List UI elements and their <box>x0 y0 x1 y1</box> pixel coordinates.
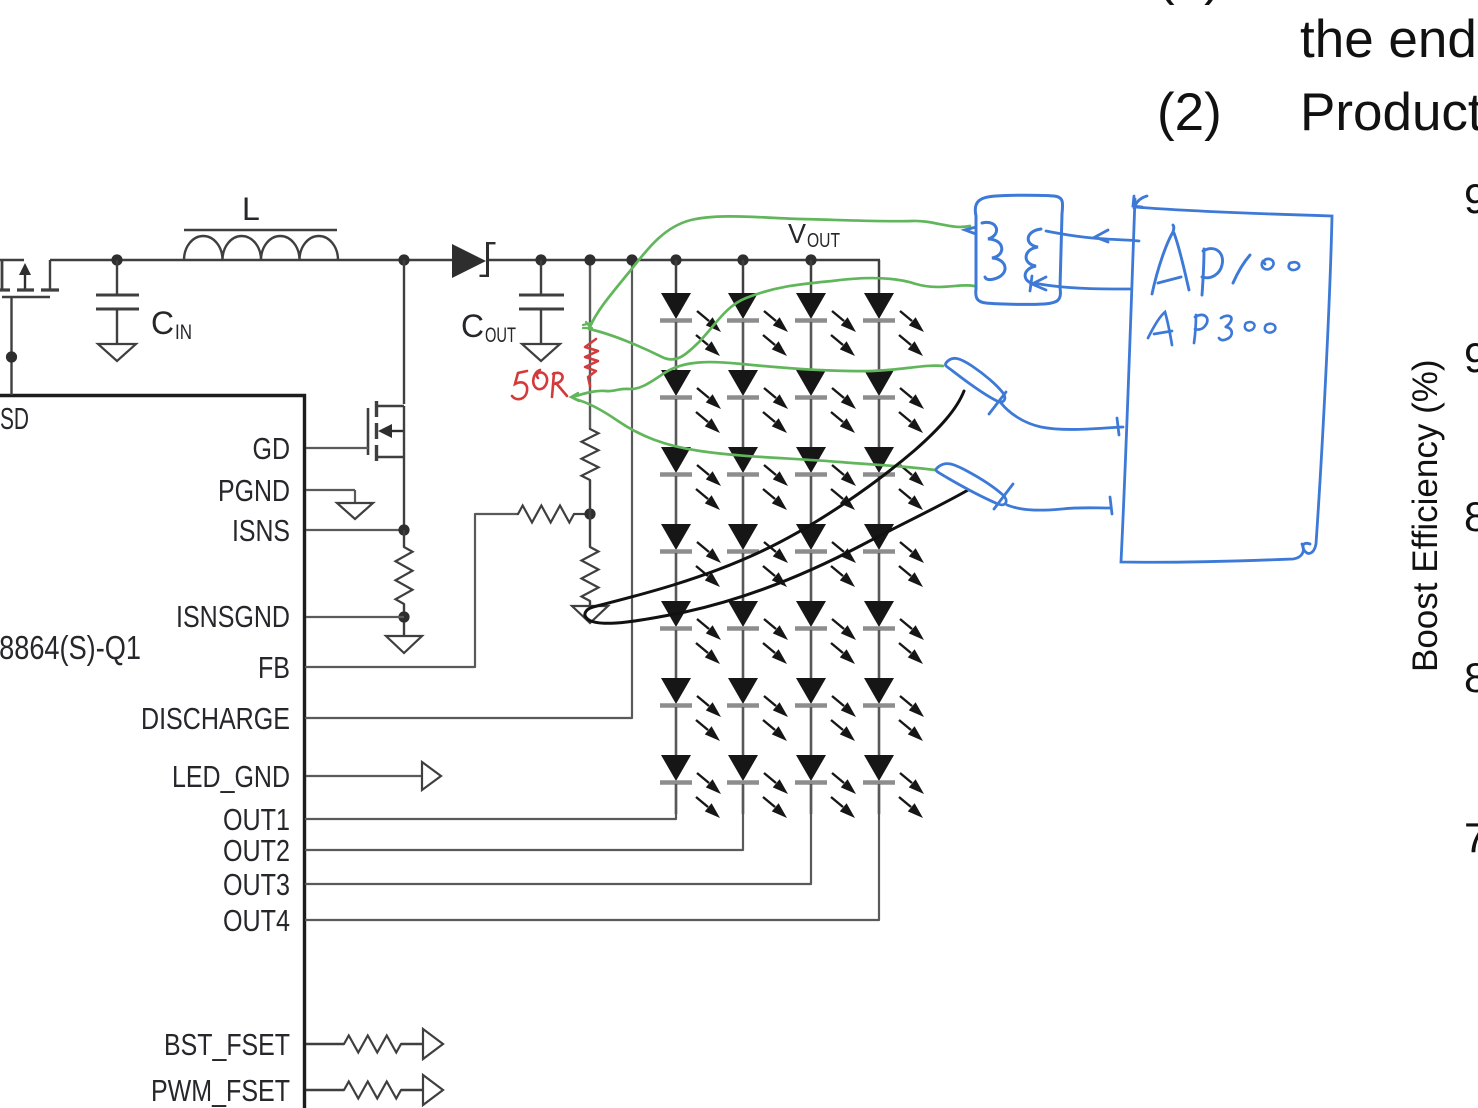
svg-text:(1): (1) <box>1157 0 1222 6</box>
ground under R_ISNS <box>386 636 422 653</box>
junction LED column 1 <box>670 254 681 265</box>
wire black B1 (divider gnd to clip 1) <box>593 391 964 607</box>
LED D47 <box>863 755 924 818</box>
junction COUT <box>535 254 546 265</box>
wire PGND stub <box>354 490 356 503</box>
product box (blue) <box>1121 196 1332 562</box>
wire ISNSGND pin <box>306 616 404 618</box>
svg-text:BST_FSET: BST_FSET <box>164 1028 290 1062</box>
open arrow FSET <box>423 1029 443 1059</box>
junction on rail <box>626 254 637 265</box>
LED D25 <box>727 601 788 678</box>
transistor Q2 (boost NFET) <box>368 260 404 461</box>
resistor <box>344 1036 401 1053</box>
LED D22 <box>727 370 788 447</box>
wire FSET pin <box>306 1043 344 1045</box>
transformer sketch (blue) <box>965 195 1063 304</box>
inductor L <box>184 191 338 260</box>
svg-text:OUT3: OUT3 <box>223 868 290 902</box>
svg-text:FB: FB <box>258 651 290 685</box>
LED D15 <box>660 601 721 678</box>
svg-text:C: C <box>151 305 174 341</box>
LED D13 <box>660 447 721 524</box>
capacitor COUT <box>519 260 564 344</box>
LED D23 <box>727 447 788 524</box>
svg-text:Boost Efficiency (%): Boost Efficiency (%) <box>1406 359 1445 672</box>
wire blue transformer to box (top) <box>1030 230 1139 291</box>
LED D41 <box>863 293 924 370</box>
junction Q2 drain <box>398 254 409 265</box>
op-amp U1 LP8864-Q1 IC block outline <box>0 396 305 1108</box>
ground under CIN <box>98 344 136 361</box>
svg-text:V: V <box>788 218 806 249</box>
wire VOUT to divider <box>589 260 591 429</box>
capacitor CIN <box>96 260 139 344</box>
svg-text:P8864(S)-Q1: P8864(S)-Q1 <box>0 629 141 666</box>
svg-text:SD: SD <box>0 402 29 436</box>
wire <box>403 530 405 547</box>
svg-text:the end: the end <box>1300 10 1477 69</box>
LED D27 <box>727 755 788 818</box>
LED D16 <box>660 678 721 755</box>
wire FSET pin <box>306 1089 344 1091</box>
ground under divider <box>572 606 608 623</box>
wire PGND pin <box>306 489 355 491</box>
wire <box>401 1043 423 1045</box>
wire LED_GND pin <box>306 775 422 777</box>
wire OUT4 <box>306 786 879 920</box>
LED D34 <box>795 524 856 601</box>
open arrow LED_GND <box>422 762 441 790</box>
resistor <box>582 547 599 601</box>
wire FB pin <box>306 514 518 667</box>
svg-text:IN: IN <box>175 321 192 344</box>
wire DISCHARGE <box>306 260 632 718</box>
wire Q1 gate to IC <box>10 297 12 395</box>
wire green S4 (to clip 2) <box>575 399 935 470</box>
probe clip 1 (blue) <box>945 358 1123 435</box>
resistor <box>396 547 413 604</box>
svg-text:GD: GD <box>253 432 291 466</box>
junction FB divider <box>584 508 595 519</box>
junction ISNSGND <box>398 611 409 622</box>
svg-text:85: 85 <box>1464 493 1478 540</box>
wire VOUT rail <box>488 259 880 262</box>
LED D21 <box>727 293 788 370</box>
svg-text:Product: Product <box>1300 83 1478 142</box>
wire OUT2 <box>306 786 743 850</box>
LED D26 <box>727 678 788 755</box>
svg-text:OUT: OUT <box>807 230 840 252</box>
wire Q2 source to ISNS <box>403 457 405 530</box>
svg-text:ISNSGND: ISNSGND <box>176 600 290 634</box>
wire green S2 (divider tap to transformer bottom) <box>589 278 974 359</box>
LED D17 <box>660 755 721 818</box>
LED D32 <box>795 370 856 447</box>
svg-text:C: C <box>461 308 484 344</box>
probe clip 2 (blue) <box>936 464 1112 514</box>
transistor Q1 (input PMOS, partially cut at left edge) <box>0 259 59 297</box>
wire <box>589 601 591 606</box>
svg-text:OUT: OUT <box>485 324 516 347</box>
LED D45 <box>863 601 924 678</box>
wire green S3 (to clip 1) <box>571 393 579 401</box>
wire black B2 (divider gnd to clip 2) <box>585 490 968 623</box>
svg-text:ISNS: ISNS <box>232 514 290 548</box>
LED D46 <box>863 678 924 755</box>
wire ISNS pin <box>306 529 404 531</box>
resistor <box>582 429 599 480</box>
svg-text:PWM_FSET: PWM_FSET <box>151 1074 290 1108</box>
diode D1 (schottky) <box>452 242 496 278</box>
LED D14 <box>660 524 721 601</box>
handwritten AP300 (blue) <box>1148 312 1275 345</box>
resistor <box>518 506 574 523</box>
junction LED column 2 <box>737 254 748 265</box>
wire <box>574 513 590 515</box>
LED D31 <box>795 293 856 370</box>
resistor 50R squiggle (red handwriting) <box>585 339 598 386</box>
wire GD pin to Q2 gate <box>306 447 368 449</box>
wire <box>401 1089 423 1091</box>
svg-text:(2): (2) <box>1157 83 1222 142</box>
wire green S1 (VOUT tap to transformer) <box>583 322 592 328</box>
svg-text:L: L <box>242 191 260 227</box>
wire OUT1 <box>306 786 676 819</box>
junction ISNS <box>398 524 409 535</box>
LED D35 <box>795 601 856 678</box>
svg-text:95: 95 <box>1464 334 1478 381</box>
LED D33 <box>795 447 856 524</box>
LED D43 <box>863 447 924 524</box>
svg-text:OUT2: OUT2 <box>223 834 290 868</box>
handwritten AP100 (blue) <box>1152 225 1299 295</box>
wire VIN rail to diode <box>50 259 452 262</box>
LED D24 <box>727 524 788 601</box>
svg-text:LED_GND: LED_GND <box>172 760 290 794</box>
wire LED col4 top <box>878 260 881 293</box>
junction CIN <box>111 254 122 265</box>
svg-text:DISCHARGE: DISCHARGE <box>141 702 290 736</box>
wire <box>589 514 591 547</box>
svg-text:75: 75 <box>1464 814 1478 861</box>
svg-text:PGND: PGND <box>218 474 290 508</box>
wire LED col3 top <box>810 260 813 293</box>
ground under COUT <box>522 344 560 361</box>
ground PGND <box>337 503 373 519</box>
resistor <box>344 1082 401 1099</box>
LED D12 <box>660 370 721 447</box>
LED D11 <box>660 293 721 370</box>
LED D44 <box>863 524 924 601</box>
value label 50R (red handwriting) <box>512 370 567 399</box>
junction LED column 3 <box>805 254 816 265</box>
open arrow FSET <box>423 1075 443 1105</box>
svg-text:OUT1: OUT1 <box>223 803 290 837</box>
junction on rail <box>584 254 595 265</box>
wire LED col2 top <box>742 260 745 293</box>
LED D42 <box>863 370 924 447</box>
wire OUT3 <box>306 786 811 884</box>
wire <box>589 480 591 514</box>
junction on SD line <box>6 351 17 362</box>
svg-text:95: 95 <box>1464 175 1478 222</box>
wire LED col1 top <box>675 260 678 293</box>
LED D36 <box>795 678 856 755</box>
LED D37 <box>795 755 856 818</box>
wire <box>403 604 405 636</box>
svg-text:OUT4: OUT4 <box>223 904 290 938</box>
svg-text:85: 85 <box>1464 654 1478 701</box>
